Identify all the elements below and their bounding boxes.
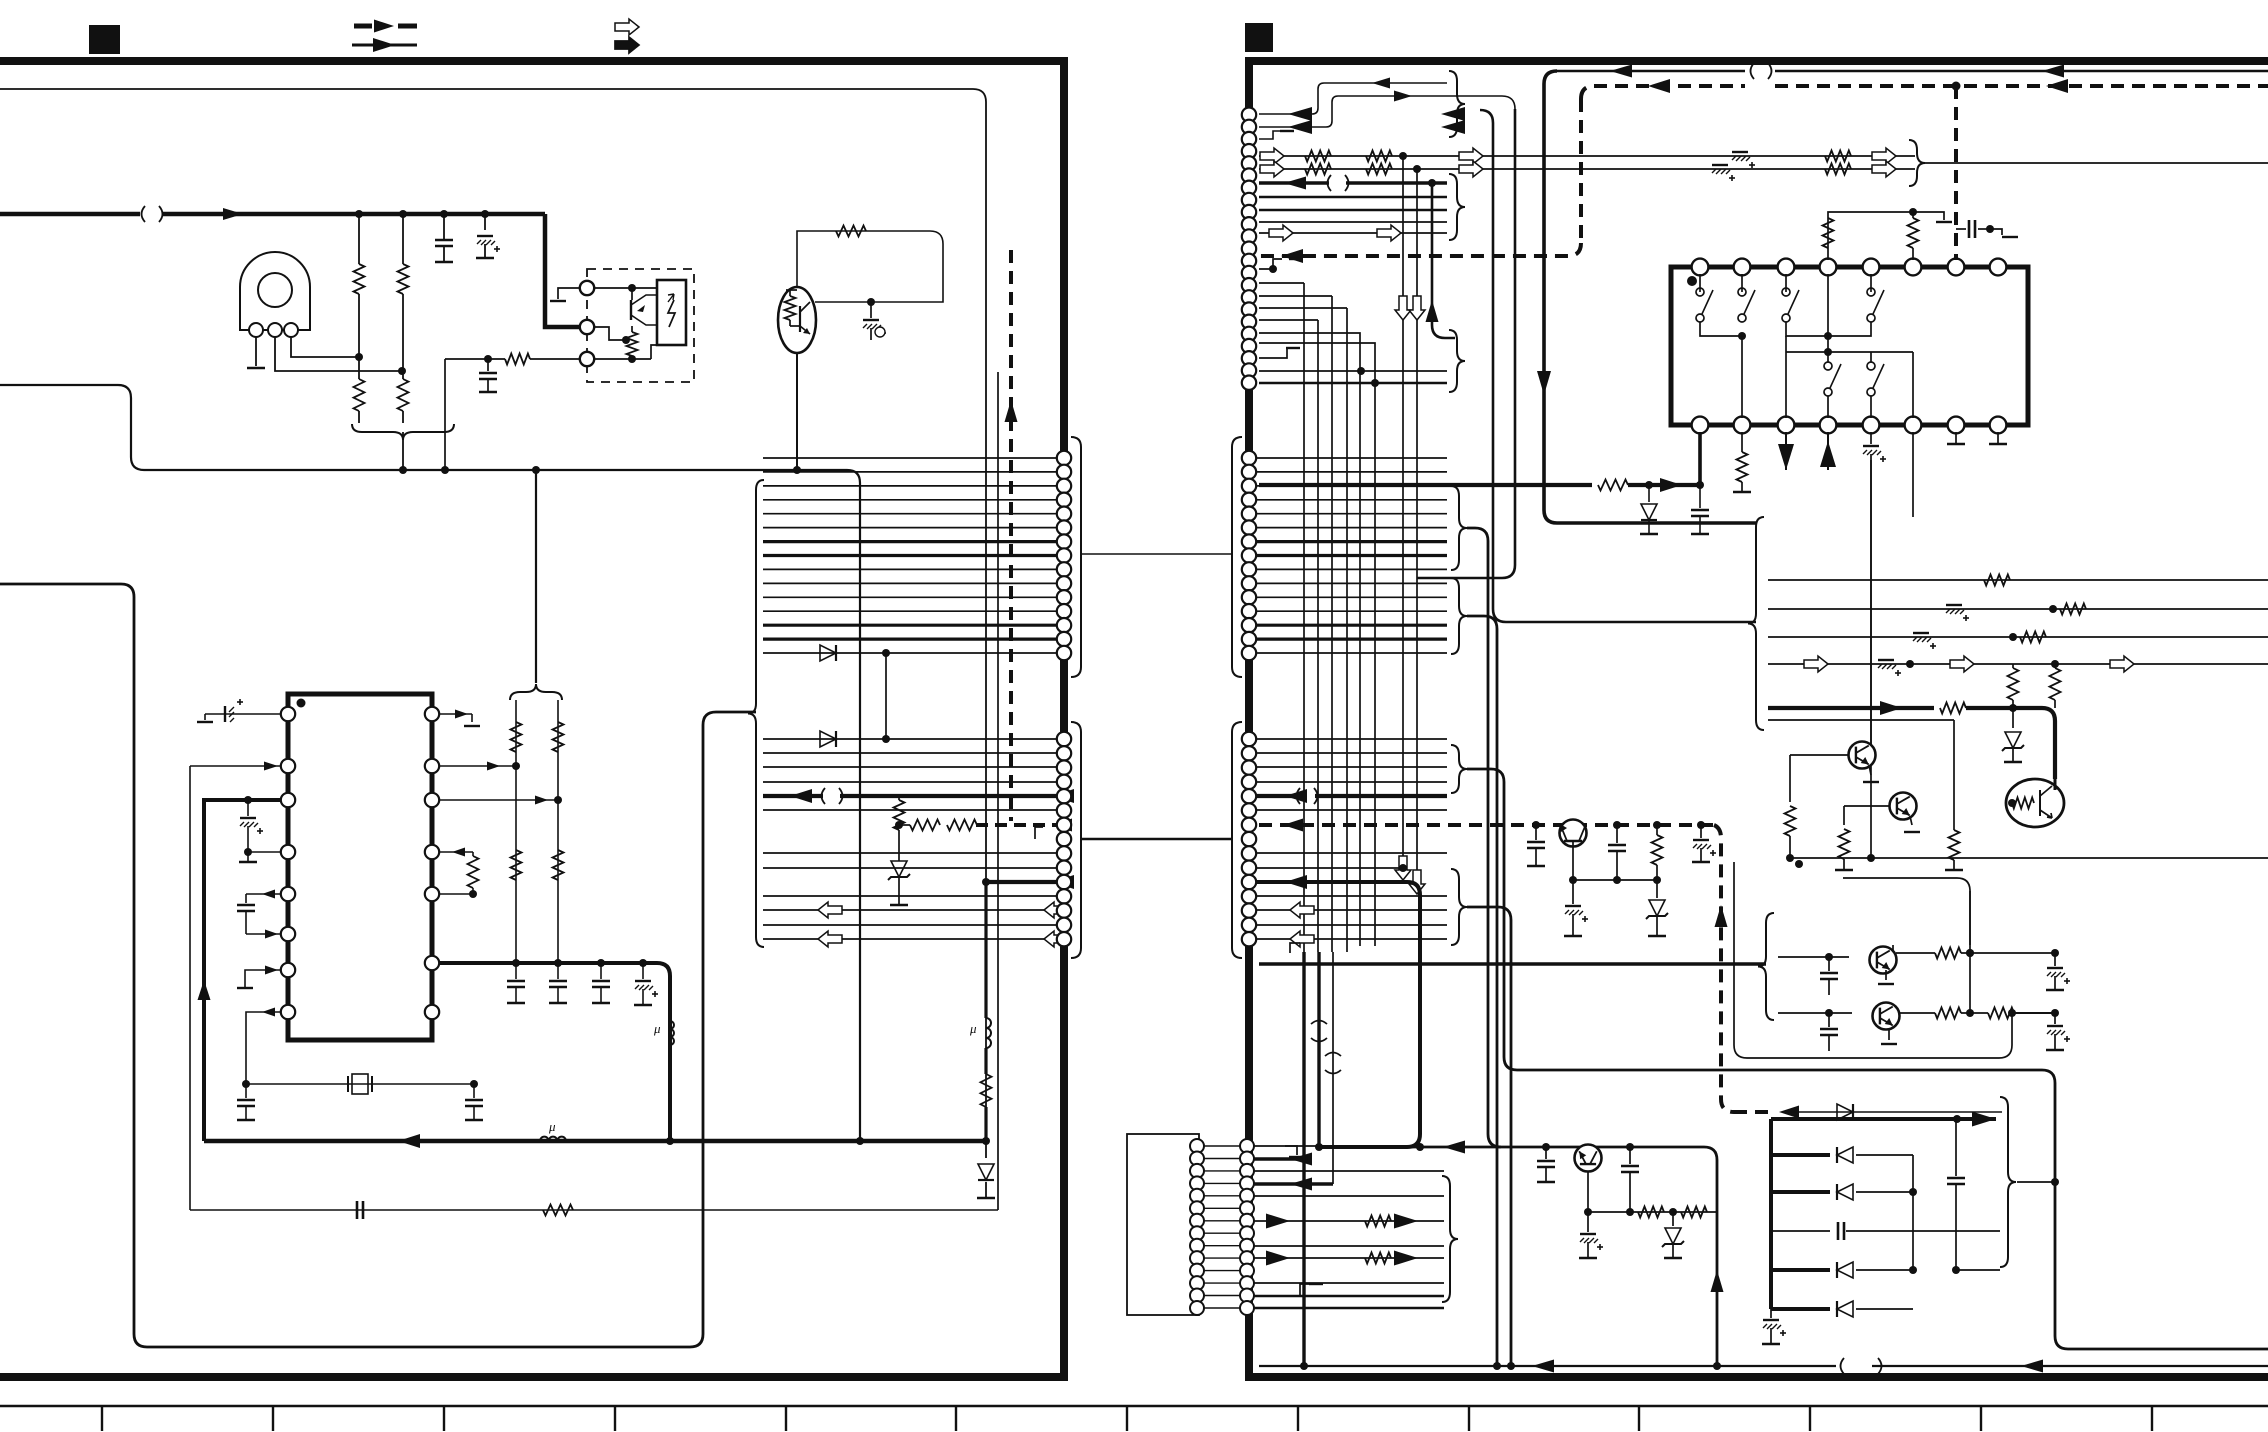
wire CN row2 xyxy=(1259,96,1515,127)
opto coupler Q6 xyxy=(2006,779,2064,827)
wire long rail 858 xyxy=(1790,857,2268,859)
SSR pin circles xyxy=(580,281,594,295)
resistor R4 xyxy=(402,372,404,379)
resistor R28 xyxy=(2060,604,2086,615)
node reg taps xyxy=(1542,1143,1550,1151)
capacitor C19 xyxy=(1699,485,1701,508)
capacitor C1 xyxy=(443,214,445,240)
wire opto top xyxy=(2054,779,2057,790)
connector CN1 housing top xyxy=(1071,437,1081,677)
wire standby common xyxy=(1573,879,1657,881)
node D2 xyxy=(882,649,890,657)
wire harness row 810 xyxy=(763,809,1056,811)
left board border frame xyxy=(0,61,1064,1377)
resistor R35 xyxy=(1656,825,1658,835)
legend solid flow arrow xyxy=(615,37,639,53)
brace CN2 group2a xyxy=(1451,745,1467,793)
wire U2 pin7 left xyxy=(245,970,281,988)
wire CN2 row 767 xyxy=(1256,766,1447,768)
ground C23 hatched xyxy=(1572,880,1574,904)
ground CN3 row10 xyxy=(1300,1284,1310,1296)
wire CN3 arrow row1 xyxy=(1254,1220,1444,1222)
legend dashed signal arrow xyxy=(354,24,372,29)
wire CN2 power thick xyxy=(1256,882,1420,1147)
resistor R24 xyxy=(1823,218,1834,248)
wire array link1 xyxy=(1912,1155,1914,1270)
resistor R33 xyxy=(1839,829,1850,859)
wire block frame xyxy=(1734,862,2012,1058)
transistor Q3 digital xyxy=(778,287,816,353)
wire U2 rpin5 xyxy=(439,893,473,895)
wire VCC rail xyxy=(0,212,140,217)
break top return rail xyxy=(1751,63,1755,79)
transistor Q7 xyxy=(1560,820,1587,847)
brace CN top group xyxy=(1449,71,1465,137)
arrow on VCC rail xyxy=(223,208,243,220)
wire CN3 row11 xyxy=(1254,1307,1444,1310)
arrow service drop A xyxy=(1537,371,1551,395)
resistor R11 xyxy=(472,852,474,856)
arrow U3 out down xyxy=(1785,432,1787,470)
IC U3 bottom pins xyxy=(1692,417,1709,434)
wire C3 drop xyxy=(444,359,446,470)
wire U2 pin4 left xyxy=(248,851,281,853)
wire dist row 664 xyxy=(1768,663,2268,665)
capacitor C17 xyxy=(1956,228,1966,230)
wire Q4 emitter xyxy=(1869,765,1871,775)
wire U2 rpin3 xyxy=(439,799,558,801)
wire CN row7 xyxy=(1259,196,1447,199)
wire U2 pin8 left xyxy=(246,1012,281,1084)
wire CN stair5 xyxy=(1259,333,1360,946)
node Q3 base net xyxy=(867,298,875,306)
inductor L1 xyxy=(668,976,672,1021)
wire CN gnd row xyxy=(1259,259,1282,269)
connector CN2 pins mid xyxy=(1242,451,1256,465)
wire Q5 base xyxy=(1844,805,1890,807)
transistor Q5 xyxy=(1890,793,1917,820)
wire harness diode row2 xyxy=(763,738,1056,740)
wire reg row xyxy=(1588,1211,1717,1213)
node U2 pin3 xyxy=(244,796,252,804)
ground CN3 row1 xyxy=(1285,1146,1297,1155)
diode D12 row xyxy=(1771,1307,1830,1311)
resistor R41 xyxy=(1365,1216,1391,1227)
wire C17 gnd xyxy=(1990,229,2002,235)
wire service drop A xyxy=(1544,71,1756,523)
left board marker square xyxy=(89,25,120,54)
resistor R10 xyxy=(553,850,564,880)
wire D2 link xyxy=(885,653,887,739)
capacitor C15 electrolytic xyxy=(1732,151,1748,153)
capacitor C2 electrolytic xyxy=(484,214,486,230)
wire main ground bus xyxy=(204,1139,986,1144)
wire CN audio row xyxy=(1259,181,1329,184)
arrow stack rows xyxy=(1441,107,1465,121)
ground C2 xyxy=(476,257,494,259)
ground U2 pin1 xyxy=(204,714,206,720)
resistor R6 in SSR xyxy=(631,326,633,332)
break on VCC rail xyxy=(142,206,146,222)
wire array top out xyxy=(1771,1117,1957,1121)
resistor R19 xyxy=(1366,151,1392,162)
brace array group xyxy=(2000,1097,2016,1267)
wire CN row 371 xyxy=(1259,370,1447,372)
wire CN3 row7 xyxy=(1254,1245,1444,1247)
capacitor C22 electrolytic xyxy=(1878,659,1894,661)
zener D13 xyxy=(1672,1212,1674,1226)
wire CN stair6 xyxy=(1259,343,1375,946)
resistor R23 xyxy=(1825,164,1851,175)
wire Q3 emitter xyxy=(796,353,798,470)
arrow dashed standby xyxy=(1648,79,1670,93)
wire harness CN1 upper rows xyxy=(763,457,1056,459)
wire U3 out1 thick xyxy=(1698,432,1702,485)
wire harness row 853 xyxy=(763,852,1056,854)
photo element Q1 xyxy=(657,280,686,345)
wire CN video row1 xyxy=(1259,155,1915,157)
wire CN3 row3 xyxy=(1254,1170,1444,1172)
brace CN2 group1a xyxy=(1451,486,1467,570)
wire Q5 emitter xyxy=(1910,816,1912,825)
dashed box SSR xyxy=(587,269,694,382)
brace pair group xyxy=(1758,913,1774,1020)
inductor L2 xyxy=(540,1137,566,1141)
wire pair row2 xyxy=(1778,1012,1852,1014)
wire CN3 row4 thick xyxy=(1254,1182,1333,1185)
legend solid signal arrow xyxy=(352,44,417,47)
wire trunk D xyxy=(1467,907,1511,1366)
capacitor C11 xyxy=(600,963,602,979)
IC U3 switch row1 bus xyxy=(1700,322,1742,336)
arrow U3 in up xyxy=(1827,432,1829,470)
resistor R2 xyxy=(402,214,404,264)
capacitor C9 xyxy=(515,963,517,979)
ground CN row3 xyxy=(1259,131,1281,139)
resistor R18 xyxy=(1305,151,1331,162)
legend open flow arrow xyxy=(615,19,639,35)
wire center vert xyxy=(1870,460,1872,745)
connector CN2 pins top xyxy=(1242,108,1256,122)
wire CN video row2 xyxy=(1259,168,1915,170)
connector CN2 pins low xyxy=(1242,732,1256,746)
wire center sense thick xyxy=(984,882,987,1018)
wire harness diode row1 xyxy=(763,652,1056,654)
IC U3 marker xyxy=(1687,276,1697,286)
resistor R29 xyxy=(2020,632,2046,643)
wire audio out L xyxy=(763,794,823,798)
wire harness row 896 xyxy=(763,895,1056,897)
capacitor C33 xyxy=(1629,1147,1631,1164)
wire CN2 open row1 xyxy=(1256,909,1447,911)
transformer T1 pins xyxy=(1190,1139,1204,1153)
left inner top rail xyxy=(0,89,986,1141)
wire CN3 row1 xyxy=(1254,1145,1319,1147)
capacitor C5 electrolytic xyxy=(247,800,249,816)
resistor R14 xyxy=(894,800,905,830)
wire SSR pin2 in xyxy=(594,327,626,340)
wire sense drop1 xyxy=(1402,156,1404,868)
ground U3 pin8 xyxy=(1997,432,1999,444)
wire CN2 row 853 xyxy=(1256,852,1447,854)
brace divider group xyxy=(352,424,454,440)
wire service drop B xyxy=(1417,109,1515,578)
IR receiver pins xyxy=(249,323,263,337)
wire CN3 row10 xyxy=(1254,1295,1444,1298)
wire power feed row xyxy=(986,880,1056,884)
wire bus A xyxy=(0,385,860,1141)
break center drop1 xyxy=(1311,1021,1327,1025)
resistor R13 xyxy=(981,1074,992,1107)
wire U2 pin6 left xyxy=(246,933,281,935)
ground stub row xyxy=(1035,827,1043,839)
resistor R34 xyxy=(1953,829,1955,831)
wire harness row 767 xyxy=(763,766,1056,768)
bottom ruler line xyxy=(0,1405,2268,1407)
wire reg feed xyxy=(1407,1146,1704,1149)
wire power bus 708 xyxy=(1768,706,1934,710)
wire dashed kill line xyxy=(1009,250,1013,821)
resistor R36 xyxy=(1935,948,1961,959)
arrow top return rail xyxy=(1610,65,1632,78)
break center drop2 xyxy=(1325,1053,1341,1057)
wire harness row 782 xyxy=(763,781,1056,783)
wire dist row 637 xyxy=(1768,636,2268,638)
wire CN2 row 896 xyxy=(1256,895,1447,897)
diode D2 xyxy=(820,645,836,661)
diode D10 row xyxy=(1771,1190,1830,1194)
brace harness group xyxy=(748,480,764,947)
resistor R15 xyxy=(910,820,940,831)
brace CN2 group1b xyxy=(1451,578,1467,654)
wire T1 links xyxy=(1204,1145,1240,1147)
ground C1 xyxy=(435,261,453,263)
wire CN3 row2 thick xyxy=(1254,1157,1304,1160)
wire U2 rpin1 xyxy=(439,713,472,715)
diode D9 row xyxy=(1771,1153,1830,1157)
IC U3 mid wires xyxy=(1870,274,1872,292)
resistor R8 xyxy=(553,722,564,752)
brace video pair xyxy=(1909,140,1925,186)
resistor R38 xyxy=(1988,1008,2014,1019)
wire pair row1 xyxy=(1778,956,1849,958)
arrow video row1 xyxy=(1260,148,1284,164)
zener D4 xyxy=(898,830,900,861)
wire dist row 580 xyxy=(1768,579,2268,581)
arrow video row2 xyxy=(1260,161,1284,177)
capacitor C10 xyxy=(557,963,559,979)
brace CN low group xyxy=(1449,330,1465,392)
resistor R32 xyxy=(1785,806,1796,836)
resistor R20 xyxy=(1305,164,1331,175)
wire video combined xyxy=(1925,162,2268,164)
brace CN3 group xyxy=(1442,1176,1458,1302)
svg-text:μ: μ xyxy=(969,1021,977,1036)
capacitor C7 xyxy=(245,1084,247,1098)
capacitor C20 electrolytic xyxy=(1946,604,1962,606)
wire CN2 row 753 xyxy=(1256,752,1447,754)
wire Q8 collector xyxy=(1892,945,1894,950)
wire U2 pin2 drop xyxy=(189,766,191,1210)
node video row2 xyxy=(1413,165,1421,173)
brace CN mid group xyxy=(1449,174,1465,240)
wire array link2 xyxy=(1955,1119,1957,1176)
wire CN row 383 xyxy=(1259,382,1447,385)
resistor R7 xyxy=(511,722,522,752)
right board border frame xyxy=(1249,61,2268,1377)
arrow dist row 664 xyxy=(1804,656,1828,672)
capacitor C32 xyxy=(1545,1147,1547,1159)
wire CN row1 xyxy=(1259,83,1447,114)
arrow bottom rail xyxy=(1532,1360,1554,1373)
wire big loop xyxy=(1504,1057,2268,1349)
wire array out rows xyxy=(1956,1269,2000,1271)
inductor L3 xyxy=(986,1018,991,1048)
resistor R3 xyxy=(358,372,360,379)
wire dashed to U3 xyxy=(1954,86,1958,260)
wire IR pin1 stub xyxy=(255,337,257,366)
brace CN2 group2b xyxy=(1451,869,1467,945)
diode D5 xyxy=(1648,485,1650,502)
resistor R30 xyxy=(2012,664,2014,668)
wire dashed standby corner xyxy=(1581,86,1594,99)
resistor R40 xyxy=(1681,1207,1707,1218)
wire CN row9 xyxy=(1259,221,1447,223)
wire U2 pin1 left xyxy=(205,713,281,715)
wire dist row 609 xyxy=(1768,608,2268,610)
capacitor C24 xyxy=(1616,825,1618,843)
wire CN3 row5 xyxy=(1254,1195,1444,1197)
wire U2 pin2 left xyxy=(190,765,281,767)
connector CN1 housing bottom xyxy=(1071,722,1081,958)
wire top return rail xyxy=(1557,70,1745,73)
wire harness row 753 xyxy=(763,752,1056,754)
wire trunk B xyxy=(1467,616,1497,1366)
wire feed right leg xyxy=(557,700,559,963)
wire IR pin3 stub xyxy=(291,337,359,357)
capacitor C27 xyxy=(1828,1013,1830,1027)
capacitor C29 electrolytic xyxy=(2054,1013,2056,1024)
node bus caps xyxy=(512,959,520,967)
resistor R31 xyxy=(2054,664,2056,668)
wire brace2 feed xyxy=(535,470,537,683)
resistor R27 xyxy=(1984,575,2010,586)
svg-text:μ: μ xyxy=(548,1119,556,1134)
node video row1 xyxy=(1399,152,1407,160)
transistor Q4 xyxy=(1849,742,1876,769)
connector CN2 housing bottom xyxy=(1232,722,1242,958)
wire reg corner xyxy=(1704,1147,1717,1366)
IC U2 left pins xyxy=(281,707,295,721)
capacitor C31 electrolytic xyxy=(1770,1309,1772,1318)
wire feed left leg xyxy=(515,700,517,963)
resistor R17 xyxy=(836,226,866,237)
resistor R9 xyxy=(511,850,522,880)
wire CN2 row 739 xyxy=(1256,738,1447,740)
wire mute dashed xyxy=(976,823,1056,827)
wire U2 pin3 thick xyxy=(204,800,281,1141)
brace feed split xyxy=(510,684,562,700)
transistor Q10 xyxy=(1575,1145,1602,1172)
wire CN3 row9 xyxy=(1254,1282,1444,1284)
capacitor C13 series xyxy=(356,1201,359,1219)
capacitor C34 electrolytic xyxy=(1587,1212,1589,1232)
node VCC junctions xyxy=(355,210,363,218)
connector CN2 housing top xyxy=(1232,437,1242,677)
capacitor C12 electrolytic xyxy=(642,963,644,979)
wire SSR pin3 inside xyxy=(594,358,651,360)
wire pair link xyxy=(1969,891,1971,1013)
wire harness open row1 xyxy=(763,909,1056,911)
wire IR pin2 to divider xyxy=(275,337,402,371)
wire CN2 open row2 xyxy=(1256,938,1447,940)
wire U3 pin6 stub xyxy=(1912,432,1914,517)
right board marker square xyxy=(1245,23,1273,52)
wire CN2 row 925 xyxy=(1256,924,1447,926)
wire Q4 base xyxy=(1790,754,1849,756)
wire CN2 harness upper rows xyxy=(1256,457,1447,459)
wire CN2 audio thick xyxy=(1256,794,1298,798)
resistor R25 xyxy=(1912,212,1914,218)
capacitor C25 electrolytic xyxy=(1700,825,1702,838)
wire service drop C xyxy=(1480,110,1756,622)
wire U3 bias top xyxy=(1828,212,1944,260)
brace dist group xyxy=(1748,517,1764,730)
ground U2 pin7 xyxy=(237,987,253,989)
IR receiver U1 body xyxy=(240,252,310,330)
IC U3 switches row1 xyxy=(1696,288,1704,296)
ground Q9 xyxy=(1888,1030,1890,1040)
node standby taps xyxy=(1532,821,1540,829)
resistor R21 xyxy=(1366,164,1392,175)
wire R14 node xyxy=(899,824,910,826)
connector CN3 pins xyxy=(1240,1139,1254,1153)
wire pair feed xyxy=(1259,962,1766,965)
IC U2 right pins xyxy=(425,707,439,721)
ground IR pin1 xyxy=(247,367,265,369)
resistor R22 xyxy=(1825,151,1851,162)
arrow video out xyxy=(1872,148,1896,164)
wire CN2 row 810 xyxy=(1256,809,1447,811)
transistor Q2 in SSR xyxy=(631,288,633,300)
ground U3 pin7 xyxy=(1955,432,1957,444)
wire B+ feed xyxy=(1259,483,1592,487)
wire SSR pin1 gnd xyxy=(558,288,580,299)
wire bottom rail xyxy=(1259,1365,1836,1367)
wire SSR pin3 chain xyxy=(445,358,505,360)
wire Q3 bias loop xyxy=(797,231,943,302)
ground U3 bias xyxy=(1936,221,1952,223)
diode D8 xyxy=(1837,1104,1853,1120)
capacitor C8 xyxy=(473,1084,475,1098)
capacitor C30 row xyxy=(1771,1230,1830,1232)
wire dashed standby to CN xyxy=(1259,243,1581,256)
wire inter-board link top xyxy=(1081,553,1232,555)
resistor R42 xyxy=(1365,1253,1391,1264)
wire U2 rpin2 xyxy=(439,765,516,767)
capacitor C26 xyxy=(1828,957,1830,971)
wire SSR pin1 node xyxy=(594,287,657,289)
wire CN row8 xyxy=(1259,209,1447,212)
arrow dashed kill up xyxy=(1005,400,1018,422)
ground Q8 xyxy=(1885,970,1887,980)
wire brace low out xyxy=(1432,183,1455,338)
IC U3 switches row2 xyxy=(1824,362,1832,370)
resistor R26 xyxy=(1741,432,1743,452)
wire harness row 925 xyxy=(763,924,1056,926)
node D3 xyxy=(882,735,890,743)
ground U2 pin4 xyxy=(247,852,249,862)
